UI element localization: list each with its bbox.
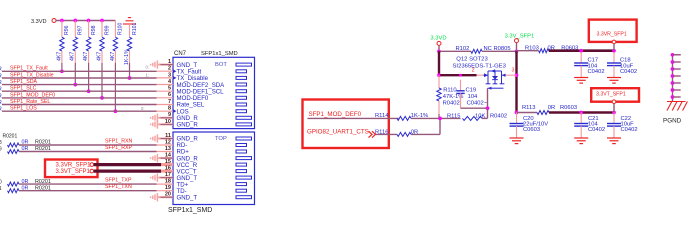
power symbol 3.3VD circle (middle) (437, 41, 441, 45)
svg-text:14: 14 (165, 153, 172, 159)
capacitor C22 (613, 113, 615, 124)
wire R103 left (517, 50, 539, 52)
svg-text:0R: 0R (548, 105, 555, 111)
svg-text:R0201: R0201 (3, 134, 18, 140)
wire top lead of R100 (114, 21, 116, 38)
svg-text:8: 8 (168, 106, 171, 112)
junction dot C21 tap (579, 111, 583, 115)
svg-text:R98: R98 (91, 25, 97, 35)
wire net SFP1_LOS (2, 110, 157, 112)
svg-text:R99: R99 (104, 25, 110, 35)
ground symbol under C18 (607, 78, 621, 84)
svg-text:SFP1_Rate_SEL: SFP1_Rate_SEL (10, 99, 50, 105)
wire PGND vertical (672, 55, 674, 102)
svg-text:R102: R102 (456, 46, 470, 52)
wire 3.3V_SFP1 circle down (516, 43, 518, 52)
junction dot PGND stub 3 (671, 67, 675, 71)
resistor R97 body (73, 37, 77, 51)
wire net SFP1_SLC (2, 90, 157, 92)
ground symbol under C20 (510, 138, 524, 144)
wire 3.3VD circle to top wire (438, 45, 440, 51)
junction dot PGND stub 2 (671, 60, 675, 64)
svg-text:R: R (0, 73, 2, 79)
svg-text:R97: R97 (78, 25, 84, 35)
svg-text:15: 15 (165, 159, 171, 165)
resistor R102 body (471, 49, 482, 53)
svg-text:16: 16 (165, 166, 171, 172)
svg-text:R116: R116 (375, 129, 388, 135)
svg-text:SFP1_MOD_DEF0: SFP1_MOD_DEF0 (309, 111, 362, 118)
svg-text:0:: 0: (146, 65, 150, 70)
svg-text:8: 8 (0, 140, 2, 146)
connector pin 13 RD+ (157, 146, 247, 156)
junction dot C22 tap (612, 111, 616, 115)
svg-text:4K7: 4K7 (96, 52, 102, 61)
connector pin 1 GND_T (151, 59, 252, 69)
svg-text:SFP1x1_SMD: SFP1x1_SMD (201, 51, 238, 57)
junction on 3.3VD rail (60, 19, 64, 23)
svg-text:3.3V_SFP1: 3.3V_SFP1 (505, 34, 535, 40)
junction dot source rail left (437, 73, 441, 77)
ground symbol PGND (hatched) (667, 102, 687, 111)
capacitor C21 (580, 113, 582, 124)
highlight box 3.3VR_SFP1 (right) (589, 20, 637, 42)
resistor R110 body (437, 88, 441, 101)
svg-text:SFP1_SLC: SFP1_SLC (10, 86, 37, 92)
svg-text:0R: 0R (22, 146, 29, 152)
svg-text:1: 1 (0, 186, 2, 192)
capacitor C17 (580, 52, 582, 63)
svg-text:SFP1_MOD_DEF0: SFP1_MOD_DEF0 (10, 92, 55, 98)
junction dot R110 top on source rail (438, 74, 441, 77)
resistor R114 body (397, 116, 411, 120)
connector pin 8 LOS (157, 106, 247, 116)
svg-text:SFP1x1_SMD: SFP1x1_SMD (168, 207, 212, 214)
resistor R100 body (113, 37, 117, 51)
svg-text:18: 18 (165, 179, 171, 185)
svg-text:6: 6 (168, 92, 171, 98)
ground symbol under C17 (574, 78, 588, 84)
svg-text:10: 10 (165, 119, 171, 125)
svg-text:9: 9 (168, 112, 171, 118)
highlight box 3.3VR/3.3VT_SFP1 (45, 160, 98, 178)
junction R98 to net (87, 89, 91, 93)
power symbol PGND hatch above R101 (123, 18, 136, 28)
junction A dot (438, 117, 442, 121)
resistor 0R in SFP1_RXP body (8, 150, 20, 154)
svg-text:R0603: R0603 (560, 105, 577, 111)
junction dot C19 top on source rail (459, 74, 462, 77)
svg-text:5: 5 (168, 86, 171, 92)
svg-text:2: 2 (168, 66, 171, 72)
wire 3.3VR circle to rail (613, 44, 615, 51)
svg-text:C0402~: C0402~ (467, 101, 488, 107)
resistor R101 body (127, 37, 131, 51)
power symbol circle 3.3VR_SFP1 (right) (612, 40, 616, 44)
junction B dot (gate/C19/R115) (486, 106, 490, 110)
svg-text:3.3VD: 3.3VD (31, 19, 47, 25)
svg-text:C0402: C0402 (588, 127, 605, 133)
junction on 3.3VD rail (73, 19, 77, 23)
svg-text:R113: R113 (522, 105, 535, 111)
connector pin 18 TD+ (157, 179, 247, 189)
wire R110 top lead (438, 75, 440, 88)
svg-text:0R: 0R (22, 179, 29, 185)
svg-text:R0201: R0201 (35, 185, 51, 191)
resistor R96 body (60, 37, 64, 51)
connector CN7 box section 2 (TOP) (173, 132, 255, 205)
power symbol 3.3V_SFP1 circle (515, 39, 519, 43)
svg-text:11: 11 (165, 133, 171, 139)
resistor 0R in SFP1_TXN body (8, 189, 20, 193)
connector pin 4 MOD-DEF2_SDA (157, 79, 247, 89)
connector pin 20 GND_T (151, 192, 252, 202)
svg-text:SFP1_TX_Fault: SFP1_TX_Fault (10, 66, 48, 72)
svg-text:R115: R115 (447, 113, 460, 119)
svg-text:R114: R114 (375, 113, 389, 119)
resistor R116 body (397, 132, 411, 136)
resistor R98 body (86, 37, 90, 51)
wire top lead of R98 (88, 21, 90, 38)
svg-text:C0402: C0402 (621, 127, 638, 133)
svg-text:3.3VT_SFP1: 3.3VT_SFP1 (596, 91, 626, 97)
connector pin 9 GND_R (151, 112, 252, 122)
connector pin 5 MOD-DEF1_SCL (157, 86, 247, 96)
transistor Q12 (N-MOSFET) symbol (477, 69, 517, 90)
svg-text:7: 7 (168, 99, 171, 105)
wire net SFP1_TX_Fault (2, 70, 157, 72)
wire bottom lead of R97 (74, 51, 76, 63)
connector pin 11 GND_R (151, 133, 252, 143)
svg-text:R: R (0, 80, 2, 86)
svg-text:GPIO82_UART1_CTS: GPIO82_UART1_CTS (307, 128, 369, 135)
wire bottom lead of R99 (101, 51, 103, 63)
wire VR rail thick (549, 49, 614, 52)
junction dot PGND stub 6 (671, 88, 675, 92)
svg-text:R: R (0, 93, 2, 99)
svg-text:R: R (0, 107, 2, 113)
wire net SFP1_TX_Disable (2, 77, 157, 79)
connector pin 16 VCC_T (161, 166, 247, 176)
svg-text:0R: 0R (22, 140, 29, 146)
wire SFP1_RXN to connector (19, 144, 157, 146)
junction R97 to net (73, 83, 77, 87)
wire 3.3VT_SFP1 to pin16 (thick) (94, 170, 161, 173)
svg-text:SFP1_RXN: SFP1_RXN (105, 138, 133, 144)
svg-text:0: 0 (0, 179, 2, 185)
svg-text:R: R (0, 87, 2, 93)
wire bottom lead of R101 (129, 51, 131, 63)
svg-text:19: 19 (165, 185, 171, 191)
svg-text:17: 17 (165, 172, 171, 178)
junction on 3.3VD rail (87, 19, 91, 23)
capacitor C19 (460, 80, 462, 91)
resistor 0R in SFP1_RXN body (8, 143, 20, 147)
junction R100 to net (114, 109, 118, 113)
connector pin 2 TX_Fault (157, 66, 247, 76)
svg-text:1K-1%: 1K-1% (124, 49, 130, 65)
power symbol circle 3.3VT_SFP1 (right) (612, 100, 616, 104)
junction dot Q12 pin3/right vertical (515, 73, 519, 77)
svg-text:R0201: R0201 (35, 146, 51, 152)
svg-text:C0402: C0402 (620, 69, 637, 75)
svg-text:3: 3 (512, 67, 515, 73)
wire bottom lead of R96 (61, 51, 63, 63)
wire 3.3VR_SFP1 to pin15 (thick) (94, 163, 161, 166)
wire riser R115 up to junction B (487, 108, 489, 118)
wire bottom lead of R100 (114, 51, 116, 63)
junction R96 to net (60, 69, 64, 73)
wire top bypass (R102 NC) (439, 50, 471, 52)
wire net SFP1_SDA (2, 84, 157, 86)
svg-text:CN7: CN7 (174, 51, 187, 57)
svg-text:104: 104 (468, 94, 478, 100)
highlight box 3.3VT_SFP1 (right) (591, 88, 639, 102)
wire R102 to right vertical (482, 50, 517, 52)
wire riser GPIO row up to junction A (439, 118, 441, 134)
wire thick source rail to Q12 pin2 (439, 74, 477, 76)
svg-text:TOP: TOP (215, 136, 227, 142)
svg-text:C0603: C0603 (523, 127, 540, 133)
svg-text:R: R (0, 100, 2, 106)
svg-text:1:: 1: (146, 73, 150, 78)
svg-text:4K7: 4K7 (56, 52, 62, 61)
wire 3.3VD rail (56, 20, 115, 22)
svg-text:SFP1_TX_Disable: SFP1_TX_Disable (10, 72, 54, 78)
connector CN7 box section 1 (BOT) (173, 57, 255, 128)
resistor R103 body (539, 49, 549, 53)
wire 3.3VT circle to rail (613, 104, 615, 113)
resistor R115 body (463, 116, 483, 120)
svg-text:20: 20 (165, 192, 171, 198)
svg-text:Q12 SOT23: Q12 SOT23 (456, 56, 488, 62)
wire bottom lead of R98 (88, 51, 90, 63)
svg-text:3.3VT_SFP1: 3.3VT_SFP1 (56, 169, 91, 175)
wire right vertical thick (3.3V_SFP1) (515, 51, 517, 112)
connector pin 17 GND_T (151, 172, 252, 182)
highlight box SFP1_MOD_DEF0/GPIO82 (303, 100, 389, 149)
svg-text:0:: 0: (141, 106, 145, 111)
svg-text:R0402: R0402 (443, 101, 460, 107)
connector pin 15 VCC_R (161, 159, 247, 169)
wire VT rail thick (549, 111, 614, 114)
svg-text:3: 3 (168, 72, 171, 78)
svg-text:3.3VD: 3.3VD (430, 36, 446, 42)
connector pin 14 GND_R (151, 153, 252, 163)
svg-text:1: 1 (168, 59, 171, 65)
svg-text:R0201: R0201 (35, 179, 51, 185)
power symbol circle 3.3VT_SFP1 (90, 169, 94, 173)
svg-text:SFP1_TXP: SFP1_TXP (105, 178, 132, 184)
svg-text:12: 12 (165, 139, 171, 145)
offpage connector chevrons GPIO82 (369, 131, 376, 137)
svg-text:2: 2 (472, 67, 475, 73)
svg-text:R: R (0, 67, 2, 73)
wire R116 to riser (411, 133, 440, 135)
svg-text:C19: C19 (466, 88, 477, 94)
connector pin 6 MOD-DEF0 (157, 92, 247, 102)
wire SFP1_TXN to connector (19, 190, 157, 192)
capacitor C20 (516, 113, 518, 124)
svg-text:3.3VR_SFP1: 3.3VR_SFP1 (597, 32, 627, 38)
wire top lead of R96 (61, 21, 63, 38)
power symbol 3.3VD circle (52, 19, 56, 23)
wire net SFP1_MOD_DEF0 (2, 97, 157, 99)
svg-text:0R: 0R (22, 185, 29, 191)
wire R115 right to riser (482, 117, 488, 119)
connector pin 10 GND_R (151, 119, 252, 129)
svg-text:SFP1_TXN: SFP1_TXN (105, 184, 132, 190)
ground symbol under C21 (574, 138, 588, 144)
junction dot R113 row left / C20 top (515, 111, 519, 115)
junction dot PGND stub 1 (671, 53, 675, 57)
junction R99 to net (100, 96, 104, 100)
junction on 3.3VD rail (100, 19, 104, 23)
connector pin 19 TD- (157, 185, 247, 195)
wire GPIO82 row (376, 133, 397, 135)
wire C19 bottom L to junction B (460, 93, 462, 108)
svg-text:R100: R100 (118, 22, 124, 35)
svg-text:PGND: PGND (663, 118, 682, 125)
ground symbol under C22 (607, 138, 621, 144)
junction dot PGND stub 5 (671, 81, 675, 85)
svg-text:BOT: BOT (215, 62, 227, 68)
connector pin 7 Rate_SEL (157, 99, 247, 109)
wire top lead of R101 (129, 28, 131, 37)
svg-text:3.3VR_SFP1: 3.3VR_SFP1 (56, 162, 92, 168)
resistor R99 body (100, 37, 104, 51)
power symbol circle 3.3VR_SFP1 (90, 163, 94, 167)
svg-text:13: 13 (165, 146, 171, 152)
junction R101 to net (128, 76, 132, 80)
wire SFP1_MOD_DEF0 row (308, 117, 399, 119)
wire top lead of R97 (74, 21, 76, 38)
svg-text:GND_T: GND_T (177, 194, 198, 201)
wire SFP1_TXP to connector (19, 183, 157, 185)
connector pin 12 RD- (157, 139, 247, 149)
junction dot C17 tap (579, 49, 583, 53)
resistor 0R in SFP1_TXP body (8, 182, 20, 186)
wire R114 to junction A (411, 117, 461, 119)
svg-text:C0402: C0402 (588, 69, 605, 75)
junction dot PGND stub 7 (671, 95, 675, 99)
svg-text:R0201: R0201 (35, 140, 51, 146)
capacitor C18 (613, 52, 615, 63)
svg-text:4K7: 4K7 (83, 52, 89, 61)
wire SFP1_RXP to connector (19, 151, 157, 153)
svg-text:4K7: 4K7 (110, 52, 116, 61)
connector pin 3 TX_Disable (157, 72, 247, 82)
wire R113 left (517, 112, 538, 114)
wire top lead of R99 (101, 21, 103, 38)
wire net SFP1_Rate_SEL (2, 104, 157, 106)
svg-text:SI2365EDS-T1-GE3: SI2365EDS-T1-GE3 (453, 63, 507, 69)
svg-text:R110: R110 (443, 88, 456, 94)
wire Q12 gate down to junction B (487, 88, 489, 108)
svg-text:SFP1_LOS: SFP1_LOS (10, 106, 37, 112)
svg-text:R96: R96 (64, 25, 70, 35)
junction dot 3.3VD/top wire (437, 49, 441, 53)
svg-text:SFP1_SDA: SFP1_SDA (10, 79, 38, 85)
junction dot PGND stub 4 (671, 74, 675, 78)
svg-text:R101: R101 (132, 22, 138, 35)
svg-text:SFP1_RXP: SFP1_RXP (105, 145, 133, 151)
junction dot C18 tap (612, 49, 616, 53)
wire R110 bottom lead (438, 101, 440, 114)
wire left vertical thick (3.3VD down) (438, 51, 440, 75)
wire PGND top stub (673, 54, 681, 56)
svg-text:4K7: 4K7 (70, 52, 76, 61)
junction dot 3.3V_SFP1/top wire (515, 49, 519, 53)
svg-text:GND_R: GND_R (177, 122, 199, 129)
resistor R113 body (537, 111, 549, 115)
svg-text:9: 9 (0, 147, 2, 153)
svg-text:R0402: R0402 (490, 113, 507, 119)
